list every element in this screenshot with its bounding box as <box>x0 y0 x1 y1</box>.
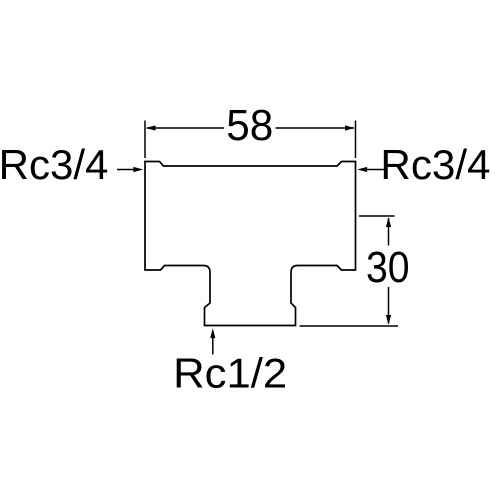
dimension 58: dimension line left segment <box>147 127 224 129</box>
dimension 30: bottom arrowhead <box>386 315 391 325</box>
dimension 30: bottom extension line <box>300 325 399 327</box>
left port leader arrowhead <box>133 167 143 172</box>
svg-text:30: 30 <box>366 243 410 292</box>
svg-text:Rc3/4: Rc3/4 <box>380 141 490 188</box>
svg-text:58: 58 <box>226 101 273 150</box>
right port leader line <box>367 169 386 171</box>
dimension 58: right arrowhead <box>345 125 355 130</box>
left port leader line <box>117 169 134 171</box>
dimension 58: left extension line <box>144 121 146 159</box>
dimension 30: top extension line <box>359 215 395 217</box>
dimension 58: dimension line right segment <box>276 127 355 129</box>
bottom port leader arrowhead <box>210 328 215 338</box>
svg-text:Rc3/4: Rc3/4 <box>0 141 108 188</box>
right port leader arrowhead <box>357 167 367 172</box>
svg-text:Rc1/2: Rc1/2 <box>173 350 287 397</box>
dimension 58: left arrowhead <box>146 125 156 130</box>
tee fitting body outline <box>145 162 356 326</box>
dimension 30: dimension line upper segment <box>388 218 390 246</box>
bottom port leader line <box>212 338 214 355</box>
dimension 30: dimension line lower segment <box>388 287 390 324</box>
dimension 30: top arrowhead <box>386 217 391 227</box>
dimension 58: right extension line <box>355 121 357 159</box>
